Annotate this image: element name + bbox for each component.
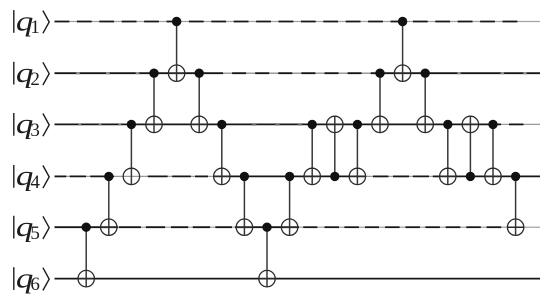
connector wire q3 to q4 col 19 <box>492 124 494 184</box>
CNOT gate column 18: control q4, target q3 <box>462 116 478 181</box>
connector wire q4 to q5 col 10 <box>289 176 291 235</box>
connector wire q3 to q4 col 17 <box>447 124 449 184</box>
target XOR circle on q4 col 11 <box>304 168 320 184</box>
control dot on q2 col 6 <box>195 69 204 78</box>
control dot on q2 col 16 <box>421 69 430 78</box>
qubit ket label |q1> <box>13 6 49 39</box>
connector wire q1 to q2 col 15 <box>402 22 404 82</box>
control dot on q3 col 7 <box>217 120 226 129</box>
wire segment q5 left <box>55 226 119 228</box>
connector wire q3 to q4 col 7 <box>221 124 223 184</box>
CNOT gate column 3: control q3, target q4 <box>123 120 139 185</box>
connector wire q4 to q3 col 12 <box>334 116 336 176</box>
control dot on q3 col 3 <box>127 120 136 129</box>
wire segment q2 right <box>434 72 540 74</box>
wire segment q3 gate cluster <box>304 123 501 125</box>
svg-text:6: 6 <box>30 274 40 295</box>
target XOR circle on q5 col 2 <box>101 219 117 235</box>
target XOR circle on q6 col 9 <box>259 270 275 286</box>
ket bar | of q6 <box>13 267 14 290</box>
ket angle bracket of q3 <box>43 114 49 137</box>
ket bar | of q3 <box>13 113 14 136</box>
ket angle bracket of q6 <box>43 268 49 291</box>
target XOR circle on q4 col 19 <box>485 168 501 184</box>
CNOT gate column 7: control q3, target q4 <box>214 120 230 185</box>
control dot on q4 col 12 <box>330 172 339 181</box>
CNOT gate column 4: control q2, target q3 <box>146 69 162 133</box>
wire q3 <box>55 123 541 125</box>
target XOR circle on q3 col 6 <box>191 116 207 132</box>
control dot on q5 col 9 <box>262 223 271 232</box>
connector wire q3 to q4 col 3 <box>130 124 132 184</box>
wire segment q5 dashed right-middle <box>303 226 317 228</box>
wire segment q4 gate cluster <box>213 175 366 177</box>
target XOR circle on q4 col 3 <box>123 168 139 184</box>
target XOR circle on q2 col 5 <box>168 65 184 81</box>
CNOT gate column 8: control q4, target q5 <box>236 172 252 236</box>
target XOR circle on q3 col 16 <box>417 116 433 132</box>
qubit ket label |q3> <box>13 108 49 141</box>
connector wire q2 to q3 col 6 <box>198 73 200 132</box>
wire segment q2 gate cluster 1 <box>147 72 209 74</box>
svg-text:3: 3 <box>30 120 40 141</box>
wire q5 <box>55 226 541 228</box>
CNOT gate column 17: control q3, target q4 <box>440 120 456 185</box>
CNOT gate column 16: control q2, target q3 <box>417 69 433 133</box>
CNOT gate column 13: control q3, target q4 <box>349 120 365 185</box>
CNOT gate column 12: control q4, target q3 <box>327 116 343 181</box>
ket bar | of q1 <box>13 10 14 33</box>
wire segment q4 right <box>440 175 540 177</box>
ket angle bracket of q2 <box>43 62 49 85</box>
connector wire q2 to q3 col 14 <box>379 73 381 132</box>
wire segment q4 left dashes <box>55 175 67 177</box>
wire segment q3 middle <box>230 123 304 125</box>
CNOT gate column 15: control q1, target q2 <box>394 17 410 82</box>
qubit ket label |q6> <box>13 263 49 296</box>
svg-text:5: 5 <box>30 223 40 244</box>
ket angle bracket of q4 <box>43 166 49 189</box>
qubit ket label |q2> <box>13 57 49 90</box>
CNOT gate column 1: control q5, target q6 <box>78 223 94 287</box>
svg-text:2: 2 <box>30 69 40 90</box>
control dot on q4 col 10 <box>285 172 294 181</box>
wire q1 (dashed full width) <box>55 21 541 23</box>
target XOR circle on q4 col 17 <box>440 168 456 184</box>
target XOR circle on q5 col 20 <box>507 219 523 235</box>
control dot on q5 col 1 <box>82 223 91 232</box>
control dot on q4 col 18 <box>466 172 475 181</box>
target XOR circle on q3 col 4 <box>146 116 162 132</box>
wire q6 (solid) <box>55 278 541 280</box>
connector wire q2 to q3 col 16 <box>424 73 426 132</box>
CNOT gate column 6: control q2, target q3 <box>191 69 207 133</box>
control dot on q4 col 20 <box>511 172 520 181</box>
qubit ket label |q4> <box>13 160 49 193</box>
control dot on q3 col 19 <box>488 120 497 129</box>
target XOR circle on q4 col 13 <box>349 168 365 184</box>
wire segment q2 gate cluster 2 <box>371 72 434 74</box>
control dot on q3 col 17 <box>443 120 452 129</box>
CNOT gate column 20: control q4, target q5 <box>507 172 523 236</box>
target XOR circle on q3 col 14 <box>372 116 388 132</box>
control dot on q3 col 11 <box>308 120 317 129</box>
connector wire q4 to q3 col 18 <box>469 116 471 176</box>
CNOT gate column 2: control q4, target q5 <box>101 172 117 236</box>
ket angle bracket of q1 <box>43 11 49 34</box>
control dot on q1 col 5 <box>172 17 181 26</box>
CNOT gate column 5: control q1, target q2 <box>168 17 184 82</box>
target XOR circle on q5 col 10 <box>281 219 297 235</box>
connector wire q4 to q5 col 2 <box>108 176 110 235</box>
ket bar | of q5 <box>13 216 14 239</box>
ket bar | of q4 <box>13 165 14 188</box>
target XOR circle on q3 col 12 <box>327 116 343 132</box>
connector wire q2 to q3 col 4 <box>153 73 155 132</box>
connector wire q3 to q4 col 13 <box>356 124 358 184</box>
control dot on q1 col 15 <box>398 17 407 26</box>
target XOR circle on q2 col 15 <box>394 65 410 81</box>
connector wire q4 to q5 col 20 <box>515 176 517 235</box>
control dot on q3 col 13 <box>353 120 362 129</box>
wire q2 <box>55 72 541 74</box>
svg-text:1: 1 <box>30 17 40 38</box>
qubit ket label |q5> <box>13 211 49 244</box>
ket angle bracket of q5 <box>43 216 49 239</box>
control dot on q2 col 14 <box>375 69 384 78</box>
wire segment q5 gate cluster <box>235 226 299 228</box>
wire q4 <box>55 175 541 177</box>
ket bar | of q2 <box>13 62 14 85</box>
CNOT gate column 9: control q5, target q6 <box>259 223 275 287</box>
connector wire q1 to q2 col 5 <box>176 22 178 82</box>
target XOR circle on q3 col 18 <box>462 116 478 132</box>
control dot on q4 col 8 <box>240 172 249 181</box>
target XOR circle on q6 col 1 <box>78 270 94 286</box>
wire segment q4 dashes between gates <box>148 175 168 177</box>
svg-text:4: 4 <box>30 172 40 193</box>
connector wire q4 to q5 col 8 <box>243 176 245 235</box>
target XOR circle on q5 col 8 <box>236 219 252 235</box>
wire segment q5 through last target <box>508 226 524 228</box>
CNOT gate column 11: control q3, target q4 <box>304 120 320 185</box>
wire segment q2 middle dashed <box>209 72 371 74</box>
wire segment q2 left <box>55 72 148 74</box>
CNOT gate column 19: control q3, target q4 <box>485 120 501 185</box>
connector wire q5 to q6 col 9 <box>266 227 268 287</box>
wire segment q3 left <box>55 123 231 125</box>
connector wire q3 to q4 col 11 <box>311 124 313 184</box>
wire segment q4 dashed right-middle <box>373 175 388 177</box>
CNOT gate column 14: control q2, target q3 <box>372 69 388 133</box>
wire segment q5 dashed left-middle <box>119 226 141 228</box>
control dot on q4 col 2 <box>104 172 113 181</box>
connector wire q5 to q6 col 1 <box>85 227 87 287</box>
wire segment q3 right dash <box>509 123 524 125</box>
target XOR circle on q4 col 7 <box>214 168 230 184</box>
control dot on q2 col 4 <box>149 69 158 78</box>
CNOT gate column 10: control q4, target q5 <box>281 172 297 236</box>
